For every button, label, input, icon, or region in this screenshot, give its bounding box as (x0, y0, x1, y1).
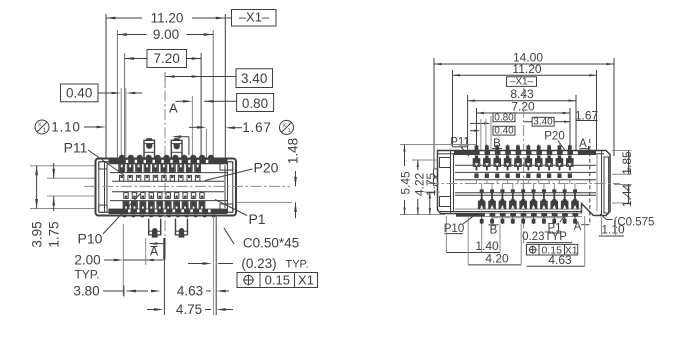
top mounting post 1 (144, 140, 155, 158)
svg-text:C0.50*45: C0.50*45 (243, 236, 299, 251)
top edge lead band right view (454, 151, 596, 155)
dim (0.23) TYP with arrow (188, 263, 207, 265)
svg-text:4.63: 4.63 (548, 253, 572, 267)
svg-text:11.20: 11.20 (512, 62, 541, 76)
rails between pin rows right view (455, 171, 596, 173)
label -X1- boxed (232, 10, 277, 27)
dim 1.75 vertical (53, 163, 55, 178)
extension lines bottom right view (445, 216, 447, 253)
svg-text:X: X (38, 123, 42, 129)
svg-text:TYP.: TYP. (74, 268, 99, 282)
svg-text:P20: P20 (544, 130, 564, 142)
svg-text:9.00: 9.00 (153, 27, 179, 42)
bottom mounting post 1 (149, 219, 161, 235)
body bottom inner line (440, 211, 582, 213)
hidden line dashed right view (589, 139, 591, 224)
svg-text:(0.23): (0.23) (241, 256, 276, 271)
vertical centerline right view (523, 88, 525, 243)
label -X1- boxed right view (507, 77, 537, 87)
svg-text:0.23TYP: 0.23TYP (522, 231, 567, 243)
top edge lead band (109, 159, 228, 164)
svg-text:5.45: 5.45 (399, 171, 413, 195)
svg-text:3.40: 3.40 (241, 71, 267, 86)
svg-text:11.20: 11.20 (151, 11, 184, 26)
svg-text:3.80: 3.80 (73, 284, 99, 299)
label C0.50*45 with leader (224, 228, 234, 244)
svg-text:A: A (150, 244, 159, 258)
svg-text:A: A (579, 138, 587, 150)
dim 14.00 (434, 63, 614, 65)
svg-text:3.40: 3.40 (533, 117, 553, 128)
dim 9.00 (117, 34, 146, 36)
dim 7.20 boxed (147, 50, 187, 68)
connector body outline (96, 159, 237, 216)
centerline vertical (left view) (164, 72, 166, 236)
svg-text:P1: P1 (248, 211, 265, 227)
dim 11.20 right view (453, 74, 597, 76)
svg-text:4.75: 4.75 (176, 302, 202, 317)
svg-text:1.67: 1.67 (242, 120, 271, 135)
svg-text:1.10: 1.10 (601, 223, 625, 237)
svg-text:4.20: 4.20 (485, 251, 509, 265)
dim 1.67 (189, 126, 203, 128)
section line A bottom (thick) (163, 238, 165, 260)
dim 3.40 boxed (236, 69, 273, 88)
body right cap details (227, 162, 229, 213)
bottom edge lead band (109, 209, 228, 214)
svg-text:7.20: 7.20 (154, 51, 180, 66)
svg-text:4.63: 4.63 (177, 284, 203, 299)
svg-text:0.80: 0.80 (242, 96, 268, 111)
bottom edge lead band right view (456, 213, 582, 217)
svg-text:0.40: 0.40 (494, 126, 514, 137)
top pin row (P11-P20) (119, 164, 125, 172)
svg-text:3.95: 3.95 (30, 221, 45, 247)
dim 3.40 boxed right view (532, 117, 554, 126)
svg-text:P20: P20 (254, 160, 279, 176)
svg-text:X: X (282, 123, 286, 129)
svg-text:B: B (490, 224, 498, 236)
horizontal centerline right view (428, 183, 620, 185)
svg-text:A: A (169, 101, 178, 116)
dim 1.48 vertical right (237, 201, 293, 203)
dim 0.40 boxed (61, 84, 99, 102)
extension lines left side (30, 165, 95, 167)
extension lines top-right (224, 14, 226, 158)
svg-text:1.48: 1.48 (286, 138, 301, 164)
bottom mounting post 2 (176, 219, 188, 235)
svg-text:1: 1 (43, 128, 46, 134)
datum target symbol left (35, 120, 49, 134)
dim 1.75 vertical right view (429, 192, 431, 215)
svg-text:1.75: 1.75 (47, 221, 62, 247)
svg-text:X1: X1 (298, 273, 314, 288)
dim 0.40 boxed right view (493, 126, 515, 135)
extension lines top-left (105, 14, 107, 158)
dim 1.85 vertical (628, 151, 630, 175)
extension lines left of right view (400, 144, 476, 146)
extension lines top dims right view (433, 58, 435, 168)
feature control frame right view (527, 244, 578, 255)
svg-text:0.15: 0.15 (265, 273, 290, 288)
svg-text:0.80: 0.80 (494, 112, 514, 123)
dim 4.75 (147, 309, 157, 311)
datum target symbol right (280, 120, 294, 134)
right bar (mating flange) (601, 151, 603, 216)
svg-text:P10: P10 (78, 231, 103, 247)
left end cap right view (450, 151, 452, 214)
dim 7.20 right view (477, 112, 571, 114)
svg-text:TYP.: TYP. (285, 259, 308, 271)
dim 3.95 vertical (36, 166, 38, 209)
centerline horizontal (left view) (84, 185, 290, 187)
svg-text:0.40: 0.40 (66, 86, 92, 101)
horizontal rails inside body (110, 163, 227, 165)
body left cap details (104, 162, 106, 213)
dim 8.43 (468, 100, 576, 102)
feature control frame left view (237, 273, 318, 288)
extension lines right of right view (612, 150, 632, 152)
svg-text:1: 1 (288, 128, 291, 134)
top contact row right view (476, 145, 478, 151)
pin centerline stubs (476, 180, 478, 184)
inner rails right view (455, 164, 596, 166)
bottom contact row right view (480, 189, 484, 193)
dim 4.22 vertical (417, 160, 419, 170)
svg-text:1.10: 1.10 (51, 120, 80, 135)
svg-text:1.44: 1.44 (620, 183, 634, 207)
svg-text:P11: P11 (64, 140, 88, 156)
dim 11.20 (106, 17, 142, 19)
bottom pin row (P1-P10) (124, 193, 128, 199)
top mounting post 2 (171, 140, 182, 158)
svg-text:2.00: 2.00 (74, 253, 100, 268)
svg-text:1.75: 1.75 (424, 172, 438, 196)
section arrow A bottom (149, 243, 165, 245)
body top inner line (438, 153, 604, 155)
dim 0.80 boxed (237, 94, 274, 112)
svg-text:–X1–: –X1– (239, 10, 270, 25)
extension lines bottom (122, 224, 124, 296)
dim 0.80 boxed right view (493, 113, 515, 122)
leader arrow to post 2 (172, 135, 182, 138)
dim 5.45 vertical (404, 145, 406, 167)
bottom lead feet line (492, 217, 566, 219)
svg-text:–X1–: –X1– (510, 77, 534, 88)
left bump (board lock) (434, 169, 438, 176)
svg-text:1.85: 1.85 (620, 151, 634, 175)
label (C0.575 chamfer (600, 214, 607, 220)
connector body outline right view (438, 151, 611, 216)
svg-text:A: A (574, 221, 582, 233)
dim 1.44 vertical (628, 185, 630, 204)
